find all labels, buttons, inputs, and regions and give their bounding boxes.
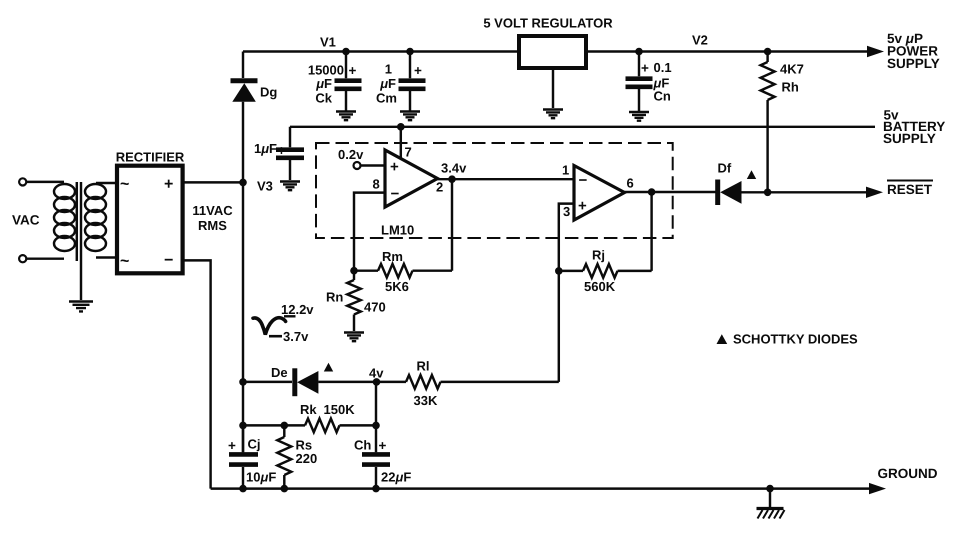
transformer T1 primary terminal bottom	[19, 255, 26, 262]
ground for transformer center tap	[69, 302, 93, 312]
wire Rj up to RESET line	[650, 192, 652, 271]
svg-text:4v: 4v	[369, 366, 384, 381]
svg-text:3.7v: 3.7v	[283, 329, 309, 344]
regulator U2 box	[519, 36, 586, 68]
wire Df to RESET arrow	[742, 191, 870, 193]
transformer core lines	[77, 182, 81, 300]
svg-text:560K: 560K	[584, 279, 616, 294]
resistor Rh vertical with leads	[761, 52, 775, 193]
svg-text:V2: V2	[692, 33, 708, 48]
svg-text:SCHOTTKY DIODES: SCHOTTKY DIODES	[733, 332, 858, 347]
wire U1a output to U1b input	[438, 178, 575, 180]
wire secondary top lead	[96, 182, 117, 184]
transformer T1 primary terminal top	[19, 178, 26, 185]
wire U1b output to Df	[625, 191, 716, 193]
svg-text:Cj: Cj	[248, 437, 261, 452]
svg-text:3: 3	[563, 204, 570, 219]
wire U1a output down to Rm	[451, 179, 453, 271]
junction dot Rk right / 4v vertical	[372, 422, 380, 430]
capacitor Cm lead	[409, 52, 411, 111]
svg-text:−: −	[579, 172, 588, 189]
svg-text:+: +	[578, 198, 587, 215]
capacitor Ch plates	[362, 454, 390, 464]
capacitor Cn lead	[638, 52, 640, 112]
diode Dg (triangle)	[232, 83, 256, 102]
svg-text:220: 220	[296, 451, 318, 466]
wire rectifier + output to node	[183, 181, 243, 183]
svg-text:Rl: Rl	[417, 359, 430, 374]
arrow RESET	[866, 187, 883, 198]
wire De line from main vertical	[243, 381, 292, 383]
svg-text:~: ~	[120, 176, 129, 193]
svg-text:Rj: Rj	[592, 248, 605, 263]
ground for Rn	[344, 333, 364, 342]
svg-text:Cm: Cm	[376, 91, 397, 106]
wire pin 8 from inverting input down to Rm node	[354, 193, 385, 271]
svg-text:+: +	[379, 438, 387, 453]
svg-text:4K7: 4K7	[780, 62, 804, 77]
op-amp U1b triangle	[574, 166, 625, 221]
wire from Dg anode down to rectifier + node	[242, 102, 244, 183]
svg-text:+: +	[278, 143, 286, 158]
svg-text:1: 1	[562, 163, 569, 178]
svg-text:+: +	[228, 438, 236, 453]
junction dot pin7/battery rail	[397, 123, 405, 131]
svg-text:8: 8	[373, 176, 380, 191]
svg-text:+: +	[414, 63, 422, 78]
svg-text:470: 470	[364, 300, 386, 315]
wire rectifier - output down to ground rail	[183, 260, 211, 488]
dashed box LM10	[316, 143, 673, 238]
resistor Rs vertical	[277, 425, 291, 488]
wire primary bottom lead	[26, 257, 64, 259]
svg-text:5K6: 5K6	[385, 279, 409, 294]
wire 0.2v to op-amp	[361, 164, 386, 166]
svg-text:VAC: VAC	[12, 213, 40, 228]
svg-text:~: ~	[120, 253, 129, 270]
svg-text:0.2v: 0.2v	[338, 147, 364, 162]
junction dot Rh/V2	[764, 48, 772, 56]
ground for Cm	[400, 112, 420, 121]
schottky marker for Df	[747, 170, 756, 179]
svg-text:+: +	[349, 63, 357, 78]
capacitor V3 plates	[276, 150, 304, 158]
svg-text:0.1: 0.1	[654, 60, 672, 75]
svg-text:22μF: 22μF	[381, 470, 411, 485]
svg-text:+: +	[164, 176, 173, 193]
junction dot U1b output	[648, 188, 656, 196]
junction dot U1a output	[448, 175, 456, 183]
svg-text:Rh: Rh	[782, 80, 799, 95]
junction dot ground rail earth	[766, 485, 774, 493]
svg-text:De: De	[271, 365, 288, 380]
svg-text:12.2v: 12.2v	[281, 302, 314, 317]
capacitor Ck lead	[345, 52, 347, 111]
wire ground rail	[211, 487, 872, 489]
wire from V1 corner down to diode Dg	[242, 52, 244, 79]
junction dot rectifier+/Dg	[239, 179, 247, 187]
svg-text:μF: μF	[379, 76, 396, 91]
transformer secondary winding	[85, 184, 106, 251]
wire Rl corner up to Rj node	[558, 271, 560, 382]
junction dot Rj/pin3	[555, 267, 563, 275]
svg-text:33K: 33K	[414, 393, 438, 408]
resistor Rn vertical	[347, 271, 361, 331]
junction dot ground rail Rs	[281, 485, 289, 493]
resistor Rm	[354, 264, 452, 278]
waveform annotation 12.2v / -3.7v	[253, 318, 286, 335]
junction dot Cn/V2	[635, 48, 643, 56]
capacitor Ck plates	[335, 81, 362, 89]
ground for Cn	[629, 112, 649, 121]
svg-text:+: +	[390, 159, 399, 176]
wire primary top lead	[26, 181, 64, 183]
svg-text:SUPPLY: SUPPLY	[883, 131, 936, 146]
wire pin 3 from non-inverting input down to Rj node	[559, 204, 574, 271]
resistor Rj	[559, 264, 652, 278]
svg-text:−: −	[391, 186, 400, 203]
svg-text:150K: 150K	[324, 402, 356, 417]
junction dot De line left	[239, 378, 247, 386]
svg-text:7: 7	[405, 145, 412, 160]
wire 4v vertical down through Ch	[375, 382, 377, 489]
svg-text:Ch: Ch	[354, 438, 371, 453]
capacitor Cn plates	[626, 79, 653, 87]
wire Cj leads	[242, 425, 244, 488]
capacitor Cm plates	[399, 81, 426, 89]
svg-text:1μF: 1μF	[254, 141, 277, 156]
svg-text:10μF: 10μF	[246, 470, 276, 485]
svg-text:1: 1	[385, 62, 392, 77]
ground symbol on ground rail	[769, 489, 771, 508]
diode Dg (cathode bar)	[231, 78, 258, 83]
svg-text:SUPPLY: SUPPLY	[887, 56, 940, 71]
wire V2 rail from regulator to power-supply arrow	[586, 50, 869, 52]
rectifier U3 box	[117, 166, 183, 274]
svg-text:Rn: Rn	[326, 290, 343, 305]
diode Df cathode bar	[715, 180, 720, 206]
ground for regulator	[543, 110, 563, 119]
svg-text:μF: μF	[315, 76, 332, 91]
svg-text:V3: V3	[257, 179, 273, 194]
svg-text:6: 6	[627, 176, 634, 191]
ground for Ck	[336, 112, 356, 121]
svg-text:RESET: RESET	[887, 182, 933, 197]
resistor Rl	[377, 375, 559, 389]
svg-text:GROUND: GROUND	[878, 466, 938, 481]
svg-text:Ck: Ck	[315, 91, 332, 106]
junction dot Ck/V1	[342, 48, 350, 56]
ground for V3	[280, 182, 300, 191]
svg-text:11VAC: 11VAC	[192, 203, 233, 218]
schottky marker for De	[324, 363, 333, 372]
wire regulator ground stem	[552, 68, 554, 108]
diode De cathode bar	[292, 368, 297, 396]
svg-text:RECTIFIER: RECTIFIER	[116, 150, 185, 165]
arrow GROUND	[869, 483, 886, 494]
junction dot node line left	[239, 422, 247, 430]
svg-text:Cn: Cn	[654, 89, 671, 104]
svg-text:3.4v: 3.4v	[441, 161, 467, 176]
junction dot 4v node	[373, 378, 381, 386]
svg-text:Rk: Rk	[300, 402, 317, 417]
junction dot ground rail Cj	[239, 485, 247, 493]
capacitor Cj plates	[229, 454, 258, 464]
input terminal 0.2v	[354, 162, 361, 169]
junction dot Rh/RESET	[764, 189, 772, 197]
wire node line y=425	[243, 424, 305, 426]
resistor Rk	[305, 419, 376, 433]
svg-text:+: +	[641, 61, 649, 76]
op-amp U1a triangle	[385, 150, 438, 207]
junction dot Rs top	[281, 422, 289, 430]
svg-text:Rm: Rm	[382, 249, 403, 264]
capacitor V3 lead	[289, 127, 291, 180]
svg-text:V1: V1	[320, 35, 336, 50]
diode De triangle	[297, 371, 318, 394]
junction dot Rm/Rn/pin8	[350, 267, 358, 275]
wire main vertical from rectifier node down	[242, 182, 244, 452]
svg-text:2: 2	[436, 180, 443, 195]
svg-text:−: −	[164, 252, 173, 269]
svg-text:LM10: LM10	[381, 223, 414, 238]
legend schottky triangle	[717, 334, 728, 344]
transformer primary winding	[54, 184, 75, 251]
wire pin 7	[400, 127, 402, 159]
svg-text:Dg: Dg	[260, 85, 277, 100]
wire secondary bottom lead	[96, 256, 117, 258]
wire De to 4v node and Rl	[318, 381, 376, 383]
junction dot ground rail Ch	[372, 485, 380, 493]
svg-text:5 VOLT REGULATOR: 5 VOLT REGULATOR	[483, 16, 613, 31]
svg-text:Df: Df	[718, 161, 732, 176]
node V1 top rail wire	[243, 50, 519, 52]
wire 5v battery rail	[290, 126, 875, 128]
label -3.7v	[269, 335, 282, 338]
arrow 5v uP power supply	[867, 46, 884, 57]
svg-text:RMS: RMS	[198, 218, 227, 233]
junction dot Cm/V1	[406, 48, 414, 56]
diode Df triangle	[720, 181, 741, 204]
